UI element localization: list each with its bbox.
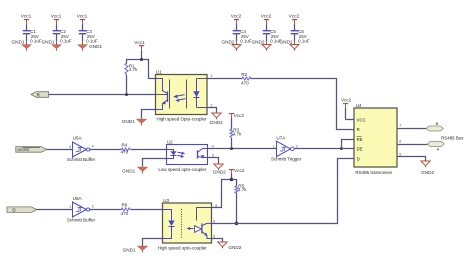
svg-text:7: 7 — [399, 123, 401, 127]
svg-text:470: 470 — [241, 81, 249, 86]
svg-text:GND1: GND1 — [122, 119, 135, 124]
wire U2 pin4 to U7A — [208, 148, 277, 150]
svg-text:6: 6 — [213, 219, 215, 223]
svg-text:DE: DE — [357, 147, 363, 152]
svg-text:1: 1 — [69, 205, 71, 209]
svg-text:Vcc1: Vcc1 — [51, 14, 62, 19]
svg-text:U3: U3 — [163, 198, 169, 203]
wire Vcc1 to C1 — [26, 25, 28, 31]
wire Vcc1 to C3 — [82, 25, 84, 31]
wire Vcc2 to VCC pin — [346, 119, 355, 121]
resistor R2 — [241, 72, 251, 86]
ground GND2 (U3) — [218, 242, 242, 250]
ground GND2 (U4) — [421, 161, 435, 175]
wire Vcc2 to C6 — [294, 25, 296, 31]
svg-text:U6A: U6A — [73, 196, 83, 201]
wire U2 cathode to GND1 — [143, 159, 167, 167]
svg-text:Vcc2: Vcc2 — [289, 14, 300, 19]
wire U7A out to U4 — [295, 148, 342, 150]
ground GND1 (U2) — [122, 167, 148, 173]
svg-text:0.1uF: 0.1uF — [298, 38, 310, 43]
svg-text:High speed opto-coupler: High speed opto-coupler — [158, 246, 208, 251]
wire B line — [397, 128, 427, 130]
power Vcc1 (C3) — [77, 14, 88, 25]
power Vcc2 (R3) — [229, 113, 245, 119]
ground GND1 (C2) — [41, 40, 61, 51]
power Vcc2 (C5) — [261, 14, 272, 25]
ground GND1 (U1) — [122, 119, 147, 125]
wire C4 to GND2 — [236, 35, 238, 42]
svg-text:RS485 transceiver: RS485 transceiver — [355, 170, 393, 175]
ground GND2 (C5) — [251, 40, 271, 51]
RS485 transceiver U4 — [354, 103, 401, 175]
wire A line — [397, 144, 428, 146]
svg-text:U1: U1 — [156, 70, 162, 75]
svg-text:VCC: VCC — [357, 117, 366, 122]
port DE/RE — [16, 147, 47, 153]
junction R3 bottom — [230, 147, 233, 150]
svg-text:Schmitt Buffer: Schmitt Buffer — [67, 157, 96, 162]
svg-text:GND2: GND2 — [251, 40, 264, 45]
svg-text:GND1: GND1 — [122, 168, 135, 173]
svg-text:2: 2 — [211, 103, 213, 107]
power Vcc2 (U4) — [341, 98, 352, 120]
power Vcc2 (R5) — [229, 168, 245, 180]
power Vcc2 (C4) — [231, 14, 242, 25]
port B — [426, 121, 443, 131]
svg-text:High speed Opto-coupler: High speed Opto-coupler — [156, 117, 207, 122]
wire Vcc2 to R5 — [232, 180, 237, 187]
resistor R4 — [121, 143, 130, 155]
wire DE/RE to U5A — [47, 149, 73, 151]
svg-text:4: 4 — [212, 144, 214, 148]
wire U6A to R6 — [90, 209, 122, 211]
ground GND1 (U3) — [123, 246, 148, 253]
wire C1 to GND1 — [26, 35, 28, 42]
svg-text:0.1uF: 0.1uF — [60, 38, 72, 43]
wire R2 to U4 pin R — [251, 79, 355, 130]
ground GND2 (U2) — [213, 164, 226, 174]
wire to DE pin — [342, 148, 355, 150]
port A — [427, 142, 444, 152]
junction RE/DE — [340, 147, 343, 150]
svg-text:0.1uF: 0.1uF — [30, 38, 42, 43]
svg-text:Vcc2: Vcc2 — [341, 98, 352, 103]
ground GND1 (C3) — [78, 42, 103, 51]
wire R5 to output line — [236, 193, 238, 224]
svg-text:6: 6 — [399, 140, 401, 144]
svg-text:R: R — [357, 127, 360, 132]
opto-coupler U1 — [156, 70, 213, 122]
wire R1 top rail — [127, 60, 157, 79]
capacitor C6 — [291, 29, 310, 43]
svg-text:Schmitt Trigger: Schmitt Trigger — [271, 157, 302, 162]
capacitor C1 — [23, 29, 42, 43]
wire U2 pin3 to GND2 — [208, 158, 219, 164]
wire U1 pin2 to GND2 — [207, 108, 217, 113]
ground GND2 (C6) — [279, 40, 299, 51]
svg-text:Vcc1: Vcc1 — [134, 40, 145, 45]
svg-text:Vcc2: Vcc2 — [234, 113, 245, 118]
wire C5 to GND2 — [266, 35, 268, 42]
svg-text:U7A: U7A — [276, 136, 286, 141]
wire Vcc2 to C4 — [236, 25, 238, 31]
svg-text:3: 3 — [212, 153, 214, 157]
svg-text:2: 2 — [296, 144, 298, 148]
wire U3 cathode to GND1 — [143, 239, 163, 247]
svg-text:R2: R2 — [241, 72, 247, 77]
svg-text:4.7k: 4.7k — [238, 187, 247, 192]
svg-text:3: 3 — [69, 145, 71, 149]
wire C3 to GND1 — [82, 35, 84, 42]
svg-text:U4: U4 — [356, 103, 362, 108]
schmitt buffer U6A — [67, 196, 96, 223]
resistor R1 — [125, 63, 138, 74]
svg-text:GND2: GND2 — [221, 40, 234, 45]
power Vcc1 (R1 rail) — [134, 40, 145, 60]
wire U3 pin5 to GND2 — [212, 239, 223, 243]
wire Vcc2 to R3 — [231, 119, 233, 130]
wire R port to U1 — [49, 94, 163, 96]
capacitor C3 — [79, 29, 98, 43]
ground GND2 (U1) — [210, 113, 223, 125]
wire U3 output to U4 pin D — [212, 159, 355, 224]
svg-text:R6: R6 — [121, 203, 127, 208]
svg-text:0.1uF: 0.1uF — [240, 38, 252, 43]
svg-text:Vcc2: Vcc2 — [234, 168, 245, 173]
wire to RE pin — [342, 140, 355, 149]
svg-text:Schmitt Buffer: Schmitt Buffer — [67, 217, 96, 222]
resistor R5 — [235, 184, 247, 194]
junction Vcc2 branch — [230, 178, 234, 182]
svg-text:GND1: GND1 — [11, 40, 24, 45]
wire Vcc1 to C2 — [56, 25, 58, 31]
wire R6 to U3 — [131, 209, 163, 211]
svg-text:4: 4 — [92, 145, 94, 149]
capacitor C4 — [233, 29, 252, 43]
opto-coupler U3 — [158, 198, 218, 250]
svg-text:Vcc2: Vcc2 — [261, 14, 272, 19]
power Vcc1 (C1) — [21, 14, 32, 25]
svg-text:GND1: GND1 — [123, 248, 136, 253]
svg-text:GND2: GND2 — [279, 40, 292, 45]
svg-text:470: 470 — [121, 211, 129, 216]
wire R3 to mid line — [231, 138, 233, 149]
capacitor C5 — [263, 29, 282, 43]
wire D to U6A — [37, 209, 73, 211]
svg-text:RS485 Bus: RS485 Bus — [441, 135, 464, 140]
svg-text:Vcc1: Vcc1 — [21, 14, 32, 19]
svg-text:Vcc1: Vcc1 — [77, 14, 88, 19]
svg-text:D: D — [357, 156, 360, 161]
svg-text:U2: U2 — [167, 139, 173, 144]
svg-text:A: A — [437, 146, 440, 151]
wire U1 pin1 to R2 — [207, 78, 243, 80]
svg-text:U5A: U5A — [73, 136, 83, 141]
svg-text:B: B — [436, 121, 439, 126]
opto-coupler U2 — [158, 139, 213, 171]
resistor R3 — [230, 128, 242, 138]
wire U5A to R4 — [90, 149, 122, 151]
wire C6 to GND2 — [294, 35, 296, 42]
wire Vcc2 to C5 — [266, 25, 268, 31]
svg-text:1: 1 — [273, 145, 275, 149]
svg-text:GND1: GND1 — [89, 44, 102, 49]
svg-text:GND2: GND2 — [421, 170, 434, 175]
schmitt trigger U7A — [271, 136, 302, 162]
ground GND2 (C4) — [221, 40, 241, 51]
capacitor C2 — [53, 29, 72, 43]
svg-text:RE: RE — [357, 137, 363, 142]
power Vcc1 (C2) — [51, 14, 62, 25]
wire U3 Vcc pin — [212, 180, 232, 208]
resistor R6 — [121, 203, 130, 216]
svg-text:1: 1 — [211, 74, 213, 78]
svg-text:GND2: GND2 — [213, 169, 226, 174]
wire GND pin to GND2 — [397, 157, 426, 162]
svg-text:R4: R4 — [121, 143, 127, 148]
power Vcc2 (C6) — [289, 14, 300, 25]
port D — [7, 207, 37, 213]
svg-text:4.7k: 4.7k — [233, 131, 242, 136]
svg-text:Low speed opto-coupler: Low speed opto-coupler — [158, 167, 207, 172]
svg-text:2: 2 — [92, 205, 94, 209]
junction R5 bottom — [235, 222, 239, 226]
junction R1 bottom — [125, 93, 128, 96]
junction Vcc1 rail — [140, 58, 143, 61]
wire C2 to GND1 — [56, 35, 58, 42]
schmitt buffer U5A — [67, 136, 96, 163]
svg-text:0.1uF: 0.1uF — [86, 38, 98, 43]
wire U1 emitter to GND1 — [142, 110, 156, 119]
svg-text:4.7k: 4.7k — [129, 67, 138, 72]
ground GND1 (C1) — [11, 40, 31, 51]
port R — [31, 92, 49, 98]
wire R4 to U2 — [131, 149, 167, 151]
svg-text:GND2: GND2 — [228, 245, 241, 250]
wire R1 bottom — [126, 75, 128, 95]
svg-text:GND2: GND2 — [210, 120, 223, 125]
svg-text:GND1: GND1 — [41, 40, 54, 45]
svg-text:Vcc2: Vcc2 — [231, 14, 242, 19]
svg-text:470: 470 — [121, 150, 129, 155]
